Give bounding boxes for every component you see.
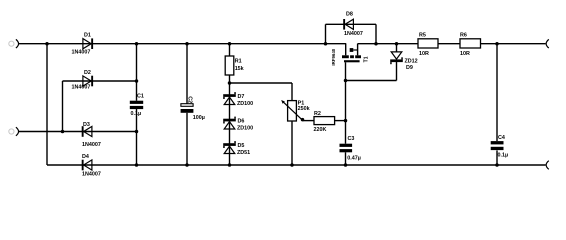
wire C4 column lower bbox=[496, 150, 498, 165]
wire vertical input A to D4 (crosses input B row) bbox=[46, 44, 48, 165]
zener diode D5 bbox=[223, 141, 250, 156]
wire R2 to gate node bbox=[335, 120, 346, 122]
svg-text:R2: R2 bbox=[314, 111, 321, 117]
diode D3 bbox=[82, 122, 101, 148]
wire C1 column lower bbox=[136, 109, 138, 165]
svg-text:T1: T1 bbox=[364, 56, 370, 62]
node junction D8 right bbox=[374, 42, 378, 46]
node junction C4 bottom bbox=[495, 163, 499, 167]
zener diode D7 bbox=[223, 92, 253, 107]
node junction C1 top bbox=[135, 42, 139, 46]
diode D8 bbox=[343, 12, 363, 38]
wire vertical D2 anode to input B bbox=[62, 81, 64, 132]
wire C2 column lower bbox=[186, 113, 188, 165]
wire top rail input segment (input A to MOSFET source) bbox=[19, 43, 346, 45]
node junction gate / R2 bbox=[344, 119, 348, 123]
svg-text:C1: C1 bbox=[137, 94, 144, 100]
svg-text:ZD12: ZD12 bbox=[405, 58, 418, 64]
svg-text:C3: C3 bbox=[348, 136, 355, 142]
svg-text:ZD100: ZD100 bbox=[237, 101, 253, 107]
connector output plus arc bbox=[546, 39, 549, 48]
svg-text:100µ: 100µ bbox=[193, 115, 205, 121]
node junction D2 cathode bbox=[135, 79, 139, 83]
svg-text:D2: D2 bbox=[84, 70, 91, 76]
wire D8 loop top bbox=[326, 23, 377, 25]
svg-text:15k: 15k bbox=[235, 66, 244, 72]
node junction D2 anode / input B bbox=[61, 130, 65, 134]
svg-text:D7: D7 bbox=[238, 94, 245, 100]
svg-text:R1: R1 bbox=[235, 59, 242, 65]
node junction D9 top bbox=[395, 42, 399, 46]
wire C2 column upper bbox=[186, 44, 188, 104]
wire D2 row bbox=[63, 80, 137, 82]
connector input A (pad circle) bbox=[9, 41, 14, 46]
svg-text:D4: D4 bbox=[82, 154, 89, 160]
svg-text:0.47µ: 0.47µ bbox=[347, 156, 361, 162]
resistor R1 bbox=[225, 56, 244, 75]
node junction zener bottom bbox=[228, 163, 232, 167]
connector output minus arc bbox=[546, 161, 549, 170]
svg-text:1N4007: 1N4007 bbox=[82, 172, 101, 178]
svg-text:D5: D5 bbox=[238, 143, 245, 149]
svg-text:D8: D8 bbox=[346, 12, 353, 18]
svg-text:ZD51: ZD51 bbox=[237, 150, 250, 156]
wire input B row bbox=[19, 131, 137, 133]
svg-text:IRF9640: IRF9640 bbox=[331, 48, 336, 65]
svg-text:ZD100: ZD100 bbox=[237, 126, 253, 132]
wire R1 / zener stack column bbox=[229, 44, 231, 165]
node junction C3 bottom bbox=[344, 163, 348, 167]
svg-text:10R: 10R bbox=[460, 51, 470, 57]
svg-text:1N4007: 1N4007 bbox=[82, 142, 101, 148]
wire D9 cathode lead bbox=[396, 62, 398, 81]
capacitor C2 (electrolytic) bbox=[181, 96, 205, 121]
svg-text:R6: R6 bbox=[460, 33, 467, 39]
zener diode D9 bbox=[390, 52, 417, 71]
svg-text:D3: D3 bbox=[83, 122, 90, 128]
node junction C4 top bbox=[495, 42, 499, 46]
node junction gate / D9 bbox=[344, 79, 348, 83]
wire gate column lower (C3 to bottom rail) bbox=[345, 152, 347, 165]
node junction R1 bottom / P1 link bbox=[228, 81, 232, 85]
wire gate to D9 horizontal bbox=[346, 80, 397, 82]
wire R1 bottom to P1 top link bbox=[230, 82, 293, 84]
svg-text:0.1µ: 0.1µ bbox=[498, 153, 509, 159]
wire D8 loop right leg bbox=[375, 24, 377, 43]
svg-text:D1: D1 bbox=[84, 32, 91, 38]
zener diode D6 bbox=[223, 117, 253, 132]
node junction R1 top bbox=[228, 42, 232, 46]
svg-text:250k: 250k bbox=[298, 106, 310, 112]
svg-text:220K: 220K bbox=[314, 127, 327, 133]
connector input B arc bbox=[16, 127, 19, 136]
wire P1 wiper to R2 bbox=[303, 120, 315, 122]
wire P1 column bbox=[291, 83, 293, 165]
wire C4 column upper bbox=[496, 44, 498, 141]
transistor T1 (P-MOSFET) bbox=[331, 44, 370, 66]
node junction C2 top bbox=[185, 42, 189, 46]
svg-text:0.1µ: 0.1µ bbox=[131, 111, 142, 117]
node junction P1 bottom bbox=[290, 163, 294, 167]
diode D1 bbox=[72, 32, 94, 55]
svg-text:C2: C2 bbox=[187, 96, 193, 103]
node junction D3 anode / C1 bottom bbox=[135, 130, 139, 134]
capacitor C3 bbox=[340, 136, 361, 161]
connector input A arc bbox=[16, 39, 19, 48]
svg-text:R5: R5 bbox=[419, 33, 426, 39]
svg-text:D6: D6 bbox=[238, 118, 245, 124]
potentiometer P1 bbox=[281, 100, 309, 121]
node junction P1 wiper bbox=[301, 118, 305, 122]
diode D2 bbox=[72, 70, 94, 91]
connector input B (pad circle) bbox=[9, 129, 14, 134]
resistor R5 bbox=[418, 33, 438, 57]
node junction D8 left bbox=[324, 42, 328, 46]
svg-text:C4: C4 bbox=[498, 135, 505, 141]
capacitor C4 bbox=[491, 135, 508, 158]
capacitor C1 bbox=[130, 94, 144, 117]
node junction C2 bottom bbox=[185, 163, 189, 167]
diode D4 bbox=[82, 154, 101, 178]
wire C1 column upper bbox=[136, 44, 138, 101]
svg-text:10R: 10R bbox=[419, 51, 429, 57]
node junction C1 column bottom bbox=[135, 163, 139, 167]
svg-text:1N4007: 1N4007 bbox=[344, 31, 363, 37]
wire top rail output segment (MOSFET drain to output) bbox=[358, 43, 546, 45]
svg-text:D9: D9 bbox=[406, 65, 413, 71]
wire bottom rail bbox=[47, 164, 546, 166]
wire D8 loop left leg bbox=[325, 24, 327, 43]
resistor R2 bbox=[314, 111, 335, 133]
svg-text:1N4007: 1N4007 bbox=[72, 84, 91, 90]
node junction input A / top rail bbox=[45, 42, 49, 46]
wire gate column upper (gate to C3) bbox=[345, 62, 347, 143]
svg-text:1N4007: 1N4007 bbox=[72, 50, 91, 56]
wire D9 anode lead to top rail bbox=[396, 44, 398, 52]
resistor R6 bbox=[460, 33, 481, 57]
